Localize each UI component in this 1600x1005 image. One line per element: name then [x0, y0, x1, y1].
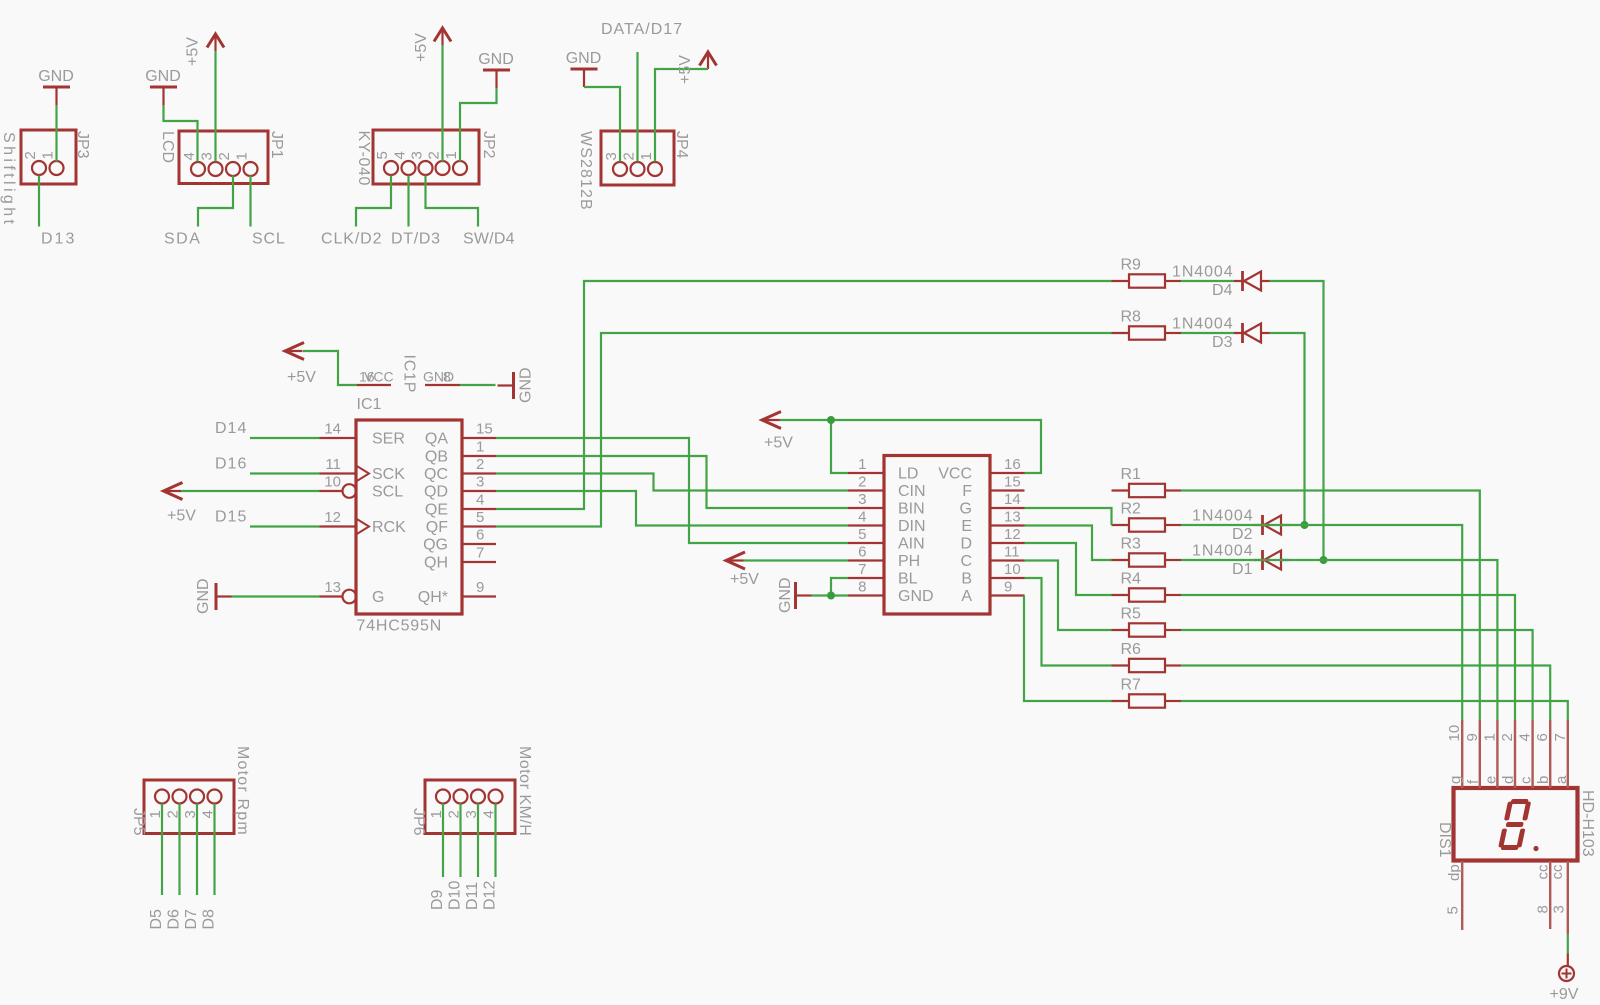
- svg-text:9: 9: [1464, 733, 1481, 741]
- svg-text:8: 8: [443, 369, 451, 385]
- svg-text:14: 14: [324, 421, 341, 438]
- svg-text:JP4: JP4: [673, 131, 690, 159]
- svg-text:Shiftlight: Shiftlight: [0, 132, 17, 227]
- svg-text:3: 3: [199, 152, 216, 160]
- svg-text:R1: R1: [1121, 466, 1142, 483]
- svg-text:SW/D4: SW/D4: [463, 231, 515, 248]
- svg-text:3: 3: [858, 491, 866, 508]
- svg-text:4: 4: [181, 152, 198, 160]
- svg-text:D: D: [960, 536, 972, 553]
- svg-text:3: 3: [476, 474, 484, 491]
- svg-text:10: 10: [324, 474, 341, 491]
- svg-text:7: 7: [1552, 733, 1569, 741]
- svg-text:1: 1: [476, 439, 484, 456]
- svg-text:e: e: [1482, 776, 1499, 784]
- svg-text:JP6: JP6: [410, 808, 427, 836]
- svg-text:D13: D13: [41, 231, 76, 248]
- svg-text:13: 13: [1004, 509, 1021, 526]
- svg-text:10: 10: [1004, 561, 1021, 578]
- svg-text:2: 2: [1499, 733, 1516, 741]
- svg-text:5: 5: [1445, 906, 1462, 914]
- svg-text:E: E: [961, 518, 972, 535]
- svg-text:QB: QB: [425, 449, 448, 466]
- svg-text:QC: QC: [424, 466, 448, 483]
- svg-text:SER: SER: [372, 431, 405, 448]
- svg-text:QG: QG: [423, 537, 448, 554]
- svg-text:D10: D10: [447, 881, 464, 910]
- svg-text:b: b: [1535, 776, 1552, 784]
- svg-text:HD-H103: HD-H103: [1579, 790, 1596, 857]
- svg-text:QA: QA: [425, 431, 448, 448]
- svg-text:74HC595N: 74HC595N: [357, 618, 443, 635]
- svg-text:2: 2: [22, 151, 39, 159]
- svg-text:8: 8: [858, 579, 866, 596]
- svg-text:D15: D15: [215, 509, 247, 526]
- svg-text:D6: D6: [166, 909, 183, 930]
- svg-text:3: 3: [1551, 905, 1568, 913]
- svg-text:IC1P: IC1P: [401, 355, 418, 394]
- svg-text:4: 4: [858, 509, 866, 526]
- svg-text:F: F: [962, 483, 972, 500]
- svg-text:1: 1: [234, 152, 251, 160]
- svg-text:1: 1: [40, 151, 57, 159]
- svg-text:1N4004: 1N4004: [1192, 508, 1253, 525]
- svg-text:CIN: CIN: [898, 483, 926, 500]
- svg-text:4: 4: [476, 492, 484, 509]
- svg-text:15: 15: [476, 421, 493, 438]
- svg-text:IC1: IC1: [357, 396, 382, 413]
- svg-text:D2: D2: [1232, 526, 1253, 543]
- svg-text:12: 12: [1004, 526, 1021, 543]
- svg-text:g: g: [1447, 776, 1464, 784]
- svg-text:9: 9: [1004, 579, 1012, 596]
- svg-text:D14: D14: [215, 420, 247, 437]
- svg-text:1: 1: [638, 152, 655, 160]
- svg-text:SCK: SCK: [372, 466, 405, 483]
- svg-text:G: G: [372, 589, 384, 606]
- svg-text:D12: D12: [482, 881, 499, 910]
- svg-text:QE: QE: [425, 502, 448, 519]
- svg-text:Motor KM/H: Motor KM/H: [516, 746, 533, 836]
- svg-text:+5V: +5V: [677, 55, 694, 84]
- svg-text:PH: PH: [898, 553, 920, 570]
- svg-text:GND: GND: [478, 51, 514, 68]
- svg-text:11: 11: [1004, 544, 1020, 561]
- svg-text:d: d: [1500, 776, 1517, 784]
- svg-text:+5V: +5V: [413, 33, 430, 62]
- svg-text:R6: R6: [1121, 641, 1142, 658]
- svg-text:7: 7: [858, 561, 866, 578]
- svg-text:+5V: +5V: [185, 37, 202, 66]
- svg-text:R8: R8: [1121, 309, 1142, 326]
- svg-text:5: 5: [374, 151, 391, 159]
- svg-text:QD: QD: [424, 484, 448, 501]
- svg-text:BL: BL: [898, 571, 918, 588]
- svg-text:G: G: [960, 501, 972, 518]
- svg-text:RCK: RCK: [372, 519, 406, 536]
- svg-text:A: A: [961, 588, 972, 605]
- svg-text:3: 3: [409, 151, 426, 159]
- svg-text:2: 2: [216, 152, 233, 160]
- svg-text:JP1: JP1: [268, 131, 285, 159]
- svg-text:D16: D16: [215, 456, 247, 473]
- svg-text:6: 6: [1534, 733, 1551, 741]
- svg-text:B: B: [961, 571, 972, 588]
- svg-text:GND: GND: [518, 367, 535, 403]
- svg-text:GND: GND: [566, 50, 602, 67]
- svg-text:Motor Rpm: Motor Rpm: [234, 746, 251, 836]
- svg-text:GND: GND: [898, 588, 934, 605]
- svg-text:JP2: JP2: [480, 131, 497, 159]
- svg-text:SCL: SCL: [252, 231, 286, 248]
- svg-text:GND: GND: [38, 68, 74, 85]
- svg-text:10: 10: [1446, 725, 1463, 742]
- svg-text:C: C: [960, 553, 972, 570]
- svg-text:JP5: JP5: [130, 808, 147, 836]
- svg-text:QH: QH: [424, 555, 448, 572]
- svg-text:VCC: VCC: [938, 466, 972, 483]
- svg-text:9: 9: [476, 579, 484, 596]
- svg-text:R4: R4: [1121, 571, 1142, 588]
- svg-text:16: 16: [1004, 456, 1021, 473]
- svg-text:SDA: SDA: [164, 231, 201, 248]
- svg-text:SCL: SCL: [372, 484, 403, 501]
- svg-text:1: 1: [1481, 733, 1498, 741]
- svg-text:12: 12: [324, 509, 341, 526]
- svg-text:D3: D3: [1212, 334, 1233, 351]
- svg-text:DIN: DIN: [898, 518, 926, 535]
- svg-text:GND: GND: [777, 577, 794, 613]
- svg-text:R9: R9: [1121, 257, 1142, 274]
- svg-text:4: 4: [1517, 733, 1534, 741]
- svg-text:WS2812B: WS2812B: [577, 131, 594, 211]
- svg-text:+5V: +5V: [167, 508, 196, 525]
- svg-text:7: 7: [476, 545, 484, 562]
- svg-text:D7: D7: [183, 909, 200, 930]
- svg-text:R7: R7: [1121, 677, 1142, 694]
- svg-text:1: 1: [858, 456, 866, 473]
- svg-text:1N4004: 1N4004: [1172, 316, 1233, 333]
- svg-text:BIN: BIN: [898, 501, 925, 518]
- svg-text:DIS1: DIS1: [1436, 822, 1453, 858]
- svg-text:6: 6: [476, 527, 484, 544]
- svg-text:LD: LD: [898, 466, 918, 483]
- svg-text:R5: R5: [1121, 606, 1142, 623]
- svg-text:JP3: JP3: [74, 131, 91, 159]
- svg-text:6: 6: [858, 544, 866, 561]
- svg-text:2: 2: [858, 474, 866, 491]
- svg-text:+9V: +9V: [1550, 986, 1579, 1003]
- svg-text:R3: R3: [1121, 536, 1142, 553]
- svg-text:VCC: VCC: [364, 369, 394, 385]
- svg-text:QH*: QH*: [418, 589, 448, 606]
- svg-text:AIN: AIN: [898, 536, 925, 553]
- svg-text:15: 15: [1004, 474, 1021, 491]
- svg-text:D5: D5: [148, 909, 165, 930]
- svg-text:KY-040: KY-040: [355, 131, 372, 187]
- svg-text:dp: dp: [1446, 864, 1463, 881]
- svg-text:a: a: [1553, 775, 1570, 784]
- svg-text:1: 1: [443, 151, 460, 159]
- svg-text:2: 2: [621, 152, 638, 160]
- svg-text:2: 2: [476, 456, 484, 473]
- svg-text:DT/D3: DT/D3: [391, 231, 441, 248]
- svg-text:cc: cc: [1549, 864, 1566, 880]
- svg-text:GND: GND: [195, 578, 212, 614]
- svg-text:2: 2: [426, 151, 443, 159]
- svg-text:3: 3: [603, 152, 620, 160]
- svg-text:5: 5: [476, 509, 484, 526]
- svg-text:D4: D4: [1212, 282, 1233, 299]
- svg-text:5: 5: [858, 526, 866, 543]
- svg-text:GND: GND: [145, 68, 181, 85]
- svg-text:D11: D11: [464, 882, 481, 910]
- svg-text:CLK/D2: CLK/D2: [321, 231, 382, 248]
- svg-text:c: c: [1518, 776, 1535, 784]
- svg-text:D9: D9: [429, 889, 446, 910]
- svg-text:14: 14: [1004, 491, 1021, 508]
- svg-text:DATA/D17: DATA/D17: [601, 21, 683, 38]
- svg-text:+5V: +5V: [287, 369, 316, 386]
- svg-text:8: 8: [1535, 905, 1552, 913]
- svg-text:LCD: LCD: [159, 131, 176, 163]
- svg-text:R2: R2: [1121, 501, 1142, 518]
- svg-text:13: 13: [324, 579, 341, 596]
- svg-text:1N4004: 1N4004: [1172, 264, 1233, 281]
- svg-text:D1: D1: [1232, 561, 1253, 578]
- svg-text:+5V: +5V: [730, 571, 759, 588]
- svg-text:4: 4: [392, 151, 409, 159]
- svg-text:1N4004: 1N4004: [1192, 543, 1253, 560]
- svg-text:QF: QF: [426, 519, 448, 536]
- svg-text:11: 11: [325, 456, 341, 473]
- svg-text:D8: D8: [201, 909, 218, 930]
- svg-text:+5V: +5V: [764, 435, 793, 452]
